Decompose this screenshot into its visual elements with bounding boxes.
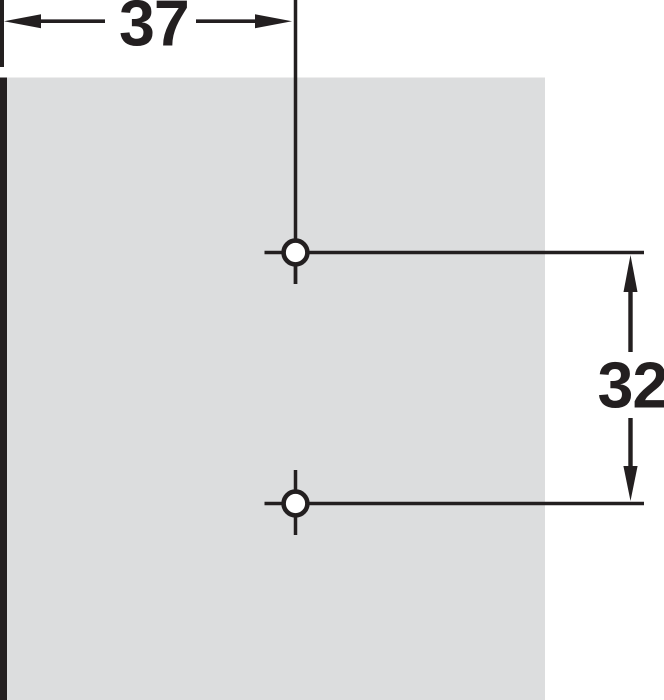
panel (mounting surface) xyxy=(7,78,545,700)
panel left edge line xyxy=(0,78,7,700)
dimension label 37 xyxy=(119,0,189,60)
dimension label 32 xyxy=(598,350,664,422)
hole 1 dimension line to right xyxy=(265,251,645,255)
arrowhead down of dim 32 xyxy=(623,466,637,501)
hole 2 vertical tick xyxy=(294,470,298,535)
dimension line 37 left segment xyxy=(36,19,105,23)
hole 2 circle xyxy=(284,492,308,516)
svg-text:37: 37 xyxy=(119,0,189,60)
dimension line 37 right segment xyxy=(196,19,260,23)
hole 1 vertical tick below xyxy=(294,253,298,285)
hole 1 circle xyxy=(284,241,308,265)
arrowhead left of dim 37 xyxy=(4,14,41,28)
svg-text:32: 32 xyxy=(598,350,664,422)
extension line right (hole axis) xyxy=(294,0,298,284)
dimension line 32 upper stem xyxy=(628,289,632,352)
arrowhead right of dim 37 xyxy=(255,14,292,28)
dimension line 32 lower stem xyxy=(628,418,632,467)
arrowhead up of dim 32 xyxy=(624,255,638,292)
hole 2 dimension line to right xyxy=(265,502,645,506)
extension line left (panel edge) xyxy=(0,0,4,67)
